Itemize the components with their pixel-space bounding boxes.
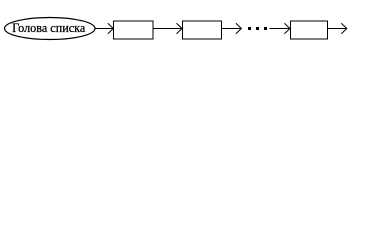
wire: node 1 to node 2 <box>153 28 182 30</box>
wire: node 3 to end <box>327 28 347 30</box>
svg-text:Голова списка: Голова списка <box>12 21 86 35</box>
ellipse: head of list <box>5 18 96 40</box>
ellipsis dot 1 <box>248 27 251 30</box>
wire: node 2 to ellipsis <box>221 28 241 30</box>
wire: ellipsis to node 3 <box>269 28 290 30</box>
node 3 rectangle <box>290 21 327 39</box>
ellipsis dot 2 <box>256 27 259 30</box>
ellipsis dot 3 <box>264 27 267 30</box>
arrowhead into node 3 <box>284 23 290 33</box>
arrowhead into node 1 <box>108 23 114 33</box>
arrowhead before ellipsis <box>236 23 242 33</box>
node 2 rectangle <box>182 21 221 39</box>
arrowhead into node 2 <box>177 23 183 33</box>
wire: ellipse to node 1 <box>95 28 113 30</box>
arrowhead at end <box>341 23 347 33</box>
node 1 rectangle <box>114 21 154 39</box>
